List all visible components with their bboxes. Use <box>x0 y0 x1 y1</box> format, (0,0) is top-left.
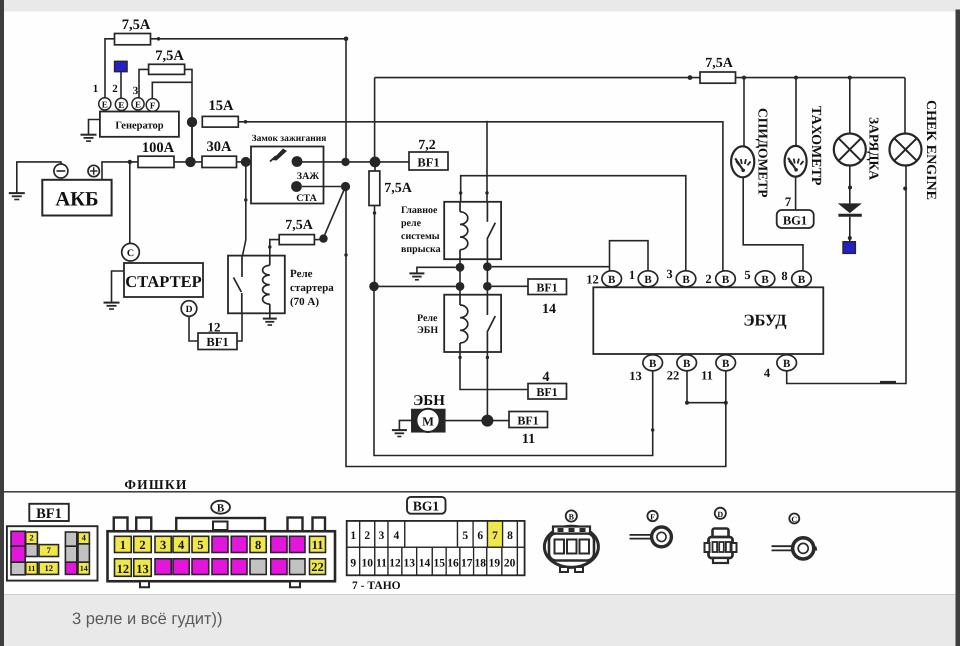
svg-text:В: В <box>644 274 652 286</box>
wire generator fuse-1 feed (E1 to top bus) <box>105 39 115 99</box>
svg-text:Генератор: Генератор <box>115 121 163 132</box>
svg-text:Замок зажигания: Замок зажигания <box>252 134 327 144</box>
label 12 (BF1) <box>208 320 221 335</box>
svg-text:7,5А: 7,5А <box>285 218 314 233</box>
pump ground <box>392 420 412 436</box>
terminal F <box>146 99 159 112</box>
svg-text:5: 5 <box>744 268 750 282</box>
label CHEK ENGINE <box>923 100 938 200</box>
wire tick marks <box>244 191 654 431</box>
label 7,5A (starter relay fuse) <box>285 218 314 233</box>
wire tachometer to BG1 <box>795 177 797 210</box>
ECU pin 1 <box>629 268 658 287</box>
wire fuse-2 to node K1 <box>185 69 192 159</box>
svg-text:18: 18 <box>474 557 486 569</box>
svg-text:4: 4 <box>82 532 87 542</box>
svg-text:3: 3 <box>133 85 139 97</box>
ECU pin 8 <box>781 269 811 287</box>
svg-text:7: 7 <box>785 194 792 209</box>
charge warning lamp <box>834 134 866 166</box>
wire to ECU pin 12 bracket <box>492 266 610 268</box>
svg-text:BF1: BF1 <box>517 414 538 428</box>
svg-text:М: М <box>422 414 434 428</box>
svg-text:2: 2 <box>29 532 33 542</box>
svg-text:7,5А: 7,5А <box>384 181 413 196</box>
svg-text:14: 14 <box>542 302 556 317</box>
starter ground <box>104 271 125 309</box>
svg-text:100А: 100А <box>142 140 175 156</box>
label 14 (BF1) <box>542 302 556 317</box>
ignition switch box <box>251 147 324 204</box>
svg-text:12: 12 <box>117 562 130 576</box>
svg-text:10: 10 <box>362 557 374 569</box>
svg-text:8: 8 <box>781 269 787 283</box>
svg-text:В: В <box>217 503 225 515</box>
wire main relay coil to ground <box>409 259 464 295</box>
wire charge lamp to diode <box>848 166 852 204</box>
terminal E2 <box>115 98 127 110</box>
svg-text:16: 16 <box>447 557 459 569</box>
ECU pin 12 <box>586 271 621 287</box>
svg-text:Е: Е <box>102 100 108 110</box>
svg-text:11: 11 <box>28 564 36 573</box>
svg-text:22: 22 <box>311 560 324 574</box>
connector BF1 pin11 box <box>509 412 548 428</box>
bottom caption area <box>0 595 960 646</box>
fuse F3 15A <box>202 116 238 127</box>
ECU pin 4 <box>764 355 797 380</box>
wire E3 to fuse-2 <box>139 69 149 98</box>
svg-text:9: 9 <box>350 557 356 569</box>
svg-text:D: D <box>717 510 723 519</box>
connector BG1 pin7 box <box>777 210 814 228</box>
svg-text:14: 14 <box>80 564 88 573</box>
svg-text:17: 17 <box>461 557 473 569</box>
svg-text:11: 11 <box>312 538 324 552</box>
connector BF1 pin4 box <box>528 384 567 400</box>
connector B cells <box>115 536 326 576</box>
svg-text:1: 1 <box>120 538 126 552</box>
wire diode to indicator <box>848 217 852 242</box>
wire to EBN coil top <box>379 282 465 291</box>
svg-text:7,2: 7,2 <box>418 138 436 153</box>
svg-text:15: 15 <box>434 557 446 569</box>
svg-text:12: 12 <box>586 273 599 287</box>
label 11 (BF1) <box>522 432 535 447</box>
connector BF1 pin12 box <box>198 333 237 350</box>
connector BG1 table <box>347 521 525 575</box>
svg-text:8: 8 <box>255 538 261 552</box>
ECU pin 3 <box>666 267 695 287</box>
contact ZAZh <box>292 156 320 182</box>
svg-text:С: С <box>791 515 797 524</box>
label 1 <box>93 83 99 95</box>
junction main bus <box>185 157 195 167</box>
starter relay box <box>228 256 285 314</box>
terminal plus <box>88 165 99 176</box>
label 15A <box>209 98 235 114</box>
svg-text:системы: системы <box>401 231 440 242</box>
left dark bar <box>0 0 4 646</box>
svg-text:ТАХОМЕТР: ТАХОМЕТР <box>808 106 823 186</box>
svg-text:В: В <box>682 274 690 286</box>
connector BF1 pin14 box <box>528 279 567 295</box>
svg-text:13: 13 <box>629 369 642 383</box>
svg-text:2: 2 <box>364 530 370 542</box>
starter relay coil ground <box>263 313 277 325</box>
ECU pin 5 <box>744 268 774 287</box>
wire coil-top to ECU pin 3 <box>461 176 686 271</box>
svg-text:В: В <box>798 274 806 286</box>
svg-text:ЭБУД: ЭБУД <box>743 311 787 330</box>
section divider <box>3 491 956 493</box>
svg-text:ЭБН: ЭБН <box>417 325 438 336</box>
svg-text:С: С <box>127 248 134 259</box>
wire BF1 junction down <box>374 166 377 282</box>
terminal minus <box>54 164 68 178</box>
wire pin12 bracket <box>610 241 649 271</box>
wire check lamp down tick <box>903 187 907 191</box>
svg-text:ФИШКИ: ФИШКИ <box>124 477 187 492</box>
wire speedometer top <box>743 78 745 147</box>
svg-text:13: 13 <box>136 562 149 576</box>
label box BG1 <box>407 497 446 514</box>
contact STA <box>291 181 317 204</box>
label 30A <box>207 139 233 155</box>
svg-text:В: В <box>722 358 730 370</box>
svg-text:F: F <box>150 101 156 111</box>
top gray strip <box>0 0 960 12</box>
caption text <box>72 610 222 628</box>
label ЭБН <box>413 393 445 409</box>
label 7,5A instruments <box>705 56 734 71</box>
main relay coil <box>460 202 468 259</box>
svg-text:7,5А: 7,5А <box>122 17 151 33</box>
wire F terminal branch <box>152 82 192 99</box>
junction BF1-14 tap <box>369 282 379 292</box>
svg-text:2: 2 <box>139 538 145 552</box>
wire between fuses <box>174 161 202 163</box>
svg-text:2: 2 <box>112 83 118 95</box>
wire lamp bus <box>736 76 906 134</box>
EBN relay box <box>444 295 501 352</box>
svg-text:12: 12 <box>389 557 401 569</box>
indicator blue square (gen) <box>115 61 128 98</box>
wire EBN switch to pump node <box>486 352 488 421</box>
wire D to BF1-12 <box>189 316 198 341</box>
ECU pin 11 <box>701 355 735 383</box>
main relay switch <box>487 202 495 259</box>
label F1 7,5A <box>122 17 151 33</box>
icon ring terminal F <box>630 511 672 547</box>
svg-text:4: 4 <box>178 538 185 552</box>
wire ZAZh line to BF1-7,2 <box>302 157 409 168</box>
svg-text:АКБ: АКБ <box>55 189 98 211</box>
svg-text:11: 11 <box>522 432 535 447</box>
battery AKB box <box>42 180 111 216</box>
svg-text:ЗАЖ: ЗАЖ <box>297 171 320 182</box>
starter relay switch <box>234 256 243 314</box>
wire ignition feed to starter relay <box>243 162 246 256</box>
wire BF1-12 to starter relay switch <box>237 313 242 341</box>
wire speedometer to ECU pin 8 <box>743 177 803 271</box>
label ТАХОМЕТР <box>808 106 823 186</box>
icon generator plug <box>544 510 598 572</box>
wire fuse to relay coil <box>270 240 279 256</box>
svg-text:В: В <box>683 358 691 370</box>
EBN relay coil <box>460 295 468 352</box>
svg-text:5: 5 <box>462 530 468 542</box>
terminal E1 <box>99 98 111 110</box>
label oval B <box>211 501 230 515</box>
starter relay coil <box>263 256 270 314</box>
connector BF1 block outline <box>7 526 98 580</box>
wire EBN coil to BF1-4 <box>460 352 528 390</box>
label Главное реле системы впрыска <box>401 205 441 255</box>
svg-text:В: В <box>608 274 616 286</box>
wire starter feed (C) <box>128 160 132 244</box>
fuse F7 7,5A (vertical) <box>369 171 380 206</box>
generator ground <box>81 120 100 142</box>
ECU pin 13 <box>629 355 662 383</box>
wire STA to pins 22-11 loop <box>346 191 726 467</box>
svg-text:ЗАРЯДКА: ЗАРЯДКА <box>867 117 882 180</box>
terminal E3 <box>132 98 144 110</box>
svg-text:ЭБН: ЭБН <box>413 393 445 409</box>
svg-text:7,5А: 7,5А <box>705 56 734 71</box>
svg-text:6: 6 <box>477 530 483 542</box>
svg-text:1: 1 <box>350 530 356 542</box>
fuse F6 7,5A (starter relay) <box>279 235 323 245</box>
svg-text:3 реле и всё гудит)): 3 реле и всё гудит)) <box>72 610 222 628</box>
svg-text:Реле: Реле <box>417 313 438 324</box>
svg-text:В: В <box>722 274 730 286</box>
svg-text:F: F <box>650 512 655 521</box>
main relay box <box>444 202 501 259</box>
label Реле стартера 70A <box>290 268 334 308</box>
svg-text:В: В <box>649 358 657 370</box>
svg-text:BG1: BG1 <box>413 499 440 514</box>
svg-text:(70 А): (70 А) <box>290 296 319 308</box>
label ФИШКИ <box>124 477 187 492</box>
icon connector D <box>705 508 737 563</box>
ECU box <box>593 287 823 354</box>
svg-text:СТАРТЕР: СТАРТЕР <box>125 272 201 291</box>
svg-text:2: 2 <box>705 272 711 286</box>
svg-text:СТА: СТА <box>296 193 317 204</box>
svg-text:Е: Е <box>135 100 141 110</box>
svg-text:7,5А: 7,5А <box>155 48 184 64</box>
svg-text:CHEK ENGINE: CHEK ENGINE <box>923 100 938 200</box>
svg-text:7 - ТАНО: 7 - ТАНО <box>352 580 401 592</box>
ECU pin 22 <box>667 355 697 383</box>
indicator blue square (charge) <box>843 242 855 254</box>
pump node junction <box>481 415 493 427</box>
svg-text:Е: Е <box>118 100 124 110</box>
svg-text:3: 3 <box>666 267 672 281</box>
check engine lamp <box>890 134 922 166</box>
svg-text:5: 5 <box>197 538 203 552</box>
svg-text:15А: 15А <box>209 98 235 114</box>
svg-text:14: 14 <box>419 557 431 569</box>
fuse F8 7,5A (instruments) <box>700 72 736 83</box>
svg-text:11: 11 <box>376 557 387 569</box>
label Реле ЭБН <box>417 313 438 336</box>
wire charge lamp top <box>848 76 852 134</box>
label F2 7,5A <box>155 48 184 64</box>
ECU pin 2 <box>705 271 735 287</box>
wire main bus (battery to 100A) <box>102 162 138 180</box>
right dark bar <box>956 10 960 646</box>
svg-text:12: 12 <box>45 563 54 573</box>
label 7,5A vertical <box>384 181 413 196</box>
svg-text:13: 13 <box>404 557 416 569</box>
svg-text:В: В <box>569 513 575 522</box>
label Замок зажигания <box>252 134 327 144</box>
svg-text:BF1: BF1 <box>206 335 228 349</box>
svg-text:D: D <box>186 305 193 315</box>
junction node K1 (15A tap) <box>187 117 197 127</box>
svg-text:3: 3 <box>379 530 385 542</box>
label 3 <box>133 85 139 97</box>
bracket pins 22-11 <box>685 371 728 405</box>
label box BF1 <box>29 504 69 522</box>
tachometer gauge <box>785 146 807 177</box>
svg-text:1: 1 <box>93 83 99 95</box>
label 7 - ТАНО <box>352 580 401 592</box>
wire main relay switch down <box>483 259 492 295</box>
fuse F5 30A <box>202 156 237 167</box>
connector BF1 7,2 box <box>409 152 448 170</box>
svg-text:3: 3 <box>160 538 166 552</box>
label 7,2 <box>418 138 436 153</box>
svg-text:СПИДОМЕТР: СПИДОМЕТР <box>756 108 771 198</box>
label СПИДОМЕТР <box>756 108 771 198</box>
label 2 <box>112 83 118 95</box>
svg-text:4: 4 <box>394 530 400 542</box>
svg-text:стартера: стартера <box>290 282 334 294</box>
svg-text:BF1: BF1 <box>536 281 557 295</box>
icon ring terminal C <box>772 514 817 560</box>
fuel pump motor M <box>412 409 445 432</box>
svg-text:Главное: Главное <box>401 205 438 216</box>
label 4 (BF1) <box>543 370 550 385</box>
svg-text:11: 11 <box>701 369 713 383</box>
svg-text:Реле: Реле <box>290 268 313 280</box>
connector B body <box>108 531 336 587</box>
wire STA diagonal to fuse <box>302 182 350 243</box>
svg-text:BG1: BG1 <box>783 214 807 228</box>
wire pin13 loop <box>374 291 653 456</box>
wire tachometer top <box>795 78 797 146</box>
svg-text:В: В <box>761 274 769 286</box>
svg-text:22: 22 <box>667 369 680 383</box>
wire top bus to ignition line <box>151 37 349 160</box>
svg-text:1: 1 <box>629 268 635 282</box>
label ЗАРЯДКА <box>867 117 882 180</box>
label 100A <box>142 140 175 156</box>
ignition key flag <box>270 149 287 162</box>
connector B teeth <box>114 518 325 532</box>
wire 30A to ignition switch <box>237 157 252 167</box>
svg-text:реле: реле <box>401 218 422 229</box>
svg-text:BF1: BF1 <box>536 385 557 399</box>
terminal C <box>122 243 140 261</box>
wire K1 down to main bus <box>191 122 193 162</box>
label 7 (BG1) <box>785 194 792 209</box>
svg-text:8: 8 <box>507 530 513 542</box>
svg-text:В: В <box>783 358 791 370</box>
svg-text:19: 19 <box>489 557 501 569</box>
wire feed bus 7,5A lamps <box>375 75 700 162</box>
speedometer gauge <box>731 146 754 177</box>
wire battery minus to ground <box>9 162 61 200</box>
svg-text:20: 20 <box>504 557 516 569</box>
svg-text:впрыска: впрыска <box>401 244 441 255</box>
svg-text:BF1: BF1 <box>417 156 439 170</box>
fuse F1 7,5A (generator excitation) <box>115 34 151 45</box>
terminal D <box>181 301 197 317</box>
svg-text:30А: 30А <box>207 139 233 155</box>
fuse F4 100A <box>138 156 174 167</box>
svg-text:4: 4 <box>764 366 771 380</box>
EBN relay switch <box>487 295 495 352</box>
wire switch-top to 15A bus <box>486 121 488 202</box>
connector BF1 cells <box>11 531 89 575</box>
wire pin4 to check-engine lamp <box>787 166 906 384</box>
wire BF1-14 link <box>492 285 528 287</box>
wire 15A bus to ECU pin 2 <box>238 120 723 271</box>
wire pump to BF1-11 <box>445 420 509 422</box>
svg-text:7: 7 <box>492 530 498 542</box>
svg-text:BF1: BF1 <box>36 506 62 522</box>
diode VD1 <box>838 203 862 215</box>
starter box <box>124 263 203 297</box>
fuse F2 7,5A (generator) <box>149 64 185 74</box>
generator box <box>100 112 179 137</box>
